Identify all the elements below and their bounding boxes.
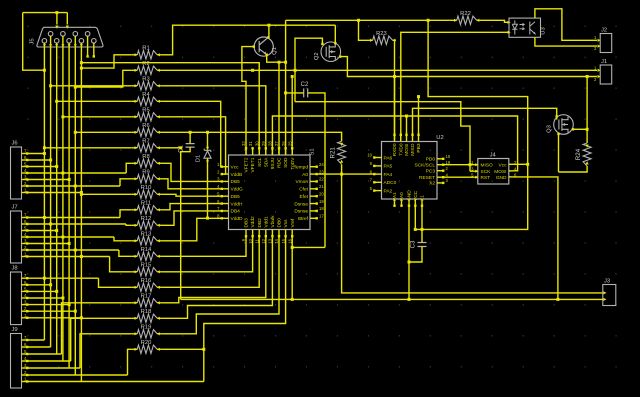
arrow into J2 pin1 <box>598 39 601 42</box>
junction DB9 loop <box>55 11 58 14</box>
connector J9 pin 7 <box>22 335 29 341</box>
junction U1 top pin2 <box>251 69 254 72</box>
wire R2 left lead <box>132 69 134 71</box>
wire R19 right lead <box>160 333 163 335</box>
arrow DB9 pin exit 3 <box>55 44 58 47</box>
wire U1 pin12 to R17 <box>163 237 266 303</box>
svg-text:R9: R9 <box>142 170 149 176</box>
svg-text:18: 18 <box>319 206 324 211</box>
svg-text:U2: U2 <box>436 135 443 141</box>
junction X1/C3 on VCC <box>421 228 424 231</box>
U2 left pin ADC0 <box>370 178 397 187</box>
junction R1 on v7 <box>80 67 83 70</box>
svg-text:R24: R24 <box>575 148 582 160</box>
junction VCC stub <box>414 228 417 231</box>
svg-text:DB3: DB3 <box>244 218 250 228</box>
junction R21 on A0 line <box>340 173 343 176</box>
wire R5 right lead <box>160 116 163 118</box>
svg-text:PA5: PA5 <box>384 164 393 170</box>
wire J7 pin 6 row <box>28 223 126 225</box>
junction emitter on vertical <box>284 61 287 64</box>
wire J4 GND net <box>513 177 558 300</box>
svg-text:24: 24 <box>319 162 324 167</box>
svg-text:Vmon: Vmon <box>295 179 308 185</box>
junction J6 pin 1 on bus <box>80 191 83 194</box>
wire R5 left net <box>63 116 132 118</box>
junction J7 pin 3 on bus <box>68 242 71 245</box>
U2 bottom pin VCC <box>413 190 419 207</box>
pad Q3 drain <box>572 128 574 130</box>
wire R6 left net <box>75 131 131 133</box>
svg-text:PC3: PC3 <box>426 169 436 175</box>
svg-text:RXD0: RXD0 <box>392 143 398 156</box>
wire TXD0 riser <box>400 135 402 142</box>
wire J8 pin 7 row <box>28 277 99 279</box>
wire R18 left net <box>71 318 132 361</box>
junction R4 on v3 <box>55 100 58 103</box>
svg-text:R4: R4 <box>142 92 150 98</box>
wire R23 left <box>359 20 370 40</box>
svg-text:U3: U3 <box>541 27 547 34</box>
svg-text:PA2: PA2 <box>384 188 393 194</box>
wire R9 left net <box>120 179 132 186</box>
wire J8 pin 3 row <box>28 304 69 306</box>
connector J9 pin 5 <box>22 349 29 355</box>
junction pin27 on emitter jog <box>278 61 281 64</box>
svg-text:VFET2: VFET2 <box>244 157 250 172</box>
U1 top pin 29 <box>261 141 269 168</box>
U1 top pin 31 <box>248 141 256 173</box>
resistor R21 <box>330 141 346 164</box>
junction J8 pin 5 on bus <box>55 290 58 293</box>
connector J1 <box>594 59 612 84</box>
svg-text:SCK/SCL: SCK/SCL <box>414 163 435 169</box>
svg-text:J6: J6 <box>12 141 18 147</box>
wire R14 right lead <box>160 255 163 257</box>
wire R20 left net <box>128 349 132 375</box>
junction J8 pin 4 on bus <box>61 297 64 300</box>
U2 right pin PC3 <box>426 166 449 175</box>
wire D1 top <box>207 132 209 149</box>
svg-text:22: 22 <box>319 177 324 182</box>
wire R11 right lead <box>160 209 163 211</box>
wire R9 right lead <box>160 178 163 180</box>
svg-text:20: 20 <box>319 191 324 196</box>
wire J1p2 to R24 vertical <box>586 77 588 144</box>
junction J6 pin 4 on bus <box>61 172 64 175</box>
resistor R8 <box>134 154 160 167</box>
U2 left pin PA5 <box>370 161 393 170</box>
junction pin25 on J1p2 line <box>291 75 294 78</box>
junction R6 on v6 <box>74 131 77 134</box>
resistor R10 <box>134 185 160 198</box>
resistor R9 <box>134 170 160 183</box>
wire Q1 collector <box>268 25 270 37</box>
wire top rail 2 <box>286 19 450 21</box>
svg-text:PA6: PA6 <box>384 155 393 161</box>
wire U1 pin10 to R15 <box>163 237 253 272</box>
connector J7 pin 7 <box>22 213 29 219</box>
svg-text:J2: J2 <box>601 28 607 34</box>
connector J7 pin 2 <box>22 245 29 251</box>
J4 left pin MISO <box>471 160 493 169</box>
wire R4 left net <box>57 100 132 102</box>
wire J7 pin 1 row <box>28 256 110 258</box>
svg-text:30: 30 <box>254 141 259 146</box>
U1 left pin 8 <box>217 213 243 222</box>
wire R22 left lead <box>450 19 454 21</box>
junction C3 on GND <box>408 261 411 264</box>
connector J7 <box>11 205 22 264</box>
arrow into U3 pin1 <box>508 21 511 24</box>
junction J4 GND on gnd line <box>556 298 559 301</box>
capacitor C3 <box>411 240 427 248</box>
wire J6 pin 1 row <box>28 192 81 194</box>
arrow into J4 pin2 <box>475 170 478 173</box>
wire VCC stub <box>414 206 416 229</box>
wire Q3 drain net <box>573 128 587 130</box>
resistor R22 <box>454 11 480 24</box>
arrow into J1 pin2 <box>598 75 601 78</box>
svg-text:PD0: PD0 <box>426 157 436 163</box>
wire J4 Vcc to VCC <box>513 163 528 165</box>
svg-text:R21: R21 <box>330 147 337 159</box>
svg-text:Q1: Q1 <box>272 47 278 55</box>
U2 bottom pin PA0 <box>399 192 405 207</box>
connector J9 pin 1 <box>22 377 29 383</box>
wire J9 pin 1 row <box>28 381 204 383</box>
svg-text:GND: GND <box>496 175 507 181</box>
connector J7 pin 3 <box>22 239 29 245</box>
svg-text:SDA: SDA <box>263 157 269 168</box>
wire C2 right net <box>308 93 325 248</box>
connector J9 pin 3 <box>22 363 29 369</box>
junction J6 pin 6 on bus <box>49 159 52 162</box>
junction J7 pin 6 on bus <box>49 223 52 226</box>
svg-text:J9: J9 <box>12 327 18 333</box>
wire R3 right lead <box>160 85 163 87</box>
svg-text:SCL: SCL <box>257 157 263 167</box>
connector J8 pin 5 <box>22 286 29 292</box>
connector J8 pin 1 <box>22 313 29 319</box>
U2 top pin MOSI <box>404 134 410 156</box>
svg-text:17: 17 <box>319 213 324 218</box>
wire to DB9 pin3 top <box>66 13 68 25</box>
connector J6 pin 6 <box>22 155 29 161</box>
wire R8 to U1 pin3 <box>163 163 222 181</box>
wire J6 pin 4 row <box>28 172 126 174</box>
wire node line y101 <box>295 102 470 172</box>
U2 bottom pin GND <box>407 190 413 207</box>
svg-text:DB0: DB0 <box>277 218 283 228</box>
wire R1 left net <box>81 55 131 68</box>
wire J9 pin 7 row <box>28 339 44 341</box>
wire J7 pin 2 row <box>28 249 119 251</box>
svg-text:10: 10 <box>367 153 372 158</box>
junction R2 on v6 <box>74 86 77 89</box>
junction J6 pin 5 on bus <box>55 165 58 168</box>
resistor R1 <box>134 46 160 59</box>
svg-text:R14: R14 <box>141 247 152 253</box>
wire DB9 top loop <box>23 12 68 14</box>
connector J4 <box>478 153 509 185</box>
wire R4 right lead <box>160 100 163 102</box>
U2 top pin TXD0 <box>398 134 404 156</box>
wire RESET to J4 RST <box>443 176 475 178</box>
svg-text:RST: RST <box>481 175 491 181</box>
U1 right pin 18 <box>294 206 324 215</box>
wire C1 bottom net <box>181 147 190 299</box>
U1 right pin 22 <box>295 177 324 186</box>
wire R4 to U1 pin1 <box>163 101 222 166</box>
wire R11 to U1 pin6 <box>163 204 222 210</box>
junction C1 on R6 line <box>189 131 192 134</box>
wire R14 left net <box>119 250 132 256</box>
wire X1 net <box>421 206 423 229</box>
wire R2 right lead <box>160 69 163 71</box>
junction pin30 on v7 <box>80 61 83 64</box>
svg-text:R7: R7 <box>142 139 149 145</box>
wire R5 left lead <box>132 116 134 118</box>
wire J9 pin 4 row <box>28 360 71 362</box>
junction branch on pin16 <box>291 246 294 249</box>
wire J7 pin 5 row <box>28 230 57 232</box>
svg-text:J5: J5 <box>30 38 36 44</box>
J4 left pin RST <box>471 173 490 182</box>
U1 right pin 23 <box>302 169 324 178</box>
U1 left pin 5 <box>217 191 240 200</box>
junction D1 on R13 net <box>206 217 209 220</box>
U2 top pin RXD0 <box>392 134 398 157</box>
wire MISO net <box>413 108 557 134</box>
wire R6 to R21 line <box>163 132 342 141</box>
svg-text:Vref: Vref <box>290 218 296 227</box>
junction J8 pin 1 on bus <box>80 316 83 319</box>
connector J6 <box>11 141 22 200</box>
wire J9 pin 6 row <box>28 346 51 348</box>
connector J6 pin 3 <box>22 175 29 181</box>
svg-text:VFET1: VFET1 <box>250 157 256 172</box>
svg-text:R18: R18 <box>141 309 152 315</box>
wire MOSI net to J4 <box>272 116 517 171</box>
wire Q2 gate net <box>295 38 322 70</box>
wire R5 to U1 pin2 <box>163 117 226 174</box>
svg-text:PB3: PB3 <box>416 143 422 152</box>
wire R7 right lead <box>160 147 163 149</box>
connector J6 pin 7 <box>22 149 29 155</box>
svg-text:Vcc: Vcc <box>499 162 508 168</box>
U1 left pin 3 <box>217 177 240 186</box>
resistor R2 <box>134 61 160 74</box>
svg-text:R1: R1 <box>142 46 149 52</box>
wire R10 right lead <box>160 193 163 195</box>
wire J8 pin 6 row <box>28 284 51 286</box>
wire DB9 pin8 stub <box>87 36 89 56</box>
junction J9 pin1 on R20 net <box>202 348 205 351</box>
pad DB9 pin8 <box>86 55 88 57</box>
svg-text:R16: R16 <box>141 278 152 284</box>
wire DB9 bus v5 <box>68 43 70 368</box>
wire R12 to U1 pin7 <box>163 211 222 225</box>
resistor R7 <box>134 139 160 152</box>
resistor R3 <box>134 77 160 90</box>
wire RXD0 up <box>394 77 396 135</box>
wire U2 MOSI stub up <box>406 116 408 135</box>
svg-text:PA4: PA4 <box>384 172 393 178</box>
wire R10 left net <box>81 193 131 195</box>
zener diode D1 <box>196 149 212 163</box>
junction J7 pin 1 on bus <box>80 255 83 258</box>
connector J7 pin 4 <box>22 232 29 238</box>
resistor R18 <box>134 309 160 322</box>
U1 top pin 32 <box>241 141 249 173</box>
wire R15 left net <box>110 257 132 272</box>
svg-text:MOSI: MOSI <box>404 144 410 156</box>
svg-text:VddD: VddD <box>231 216 244 222</box>
wire J7 pin 3 row <box>28 243 69 245</box>
capacitor C1 <box>179 144 195 153</box>
svg-text:DB5: DB5 <box>231 194 241 200</box>
arrow into J1 pin1 <box>598 69 601 72</box>
junction J8 pin 7 on bus <box>43 277 46 280</box>
arrow into U3 pin2 <box>508 31 511 34</box>
wire R9 left lead <box>132 178 134 180</box>
junction J8 pin 2 on bus <box>74 310 77 313</box>
svg-text:9SJU: 9SJU <box>270 157 276 169</box>
svg-text:Cfet: Cfet <box>299 187 308 193</box>
capacitor C2 <box>301 82 309 98</box>
U2 right pin SCK/SCL <box>414 160 450 169</box>
junction Q1 collector on rail <box>267 24 270 27</box>
wire U1 pin11 to R16 <box>163 237 259 288</box>
wire J7 pin 4 row <box>28 236 114 238</box>
wire D1 bottom <box>207 158 209 218</box>
connector J3 <box>603 279 616 306</box>
wire R1 right lead <box>160 54 163 56</box>
U1 top pin 28 <box>268 141 276 170</box>
arrow DB9 pin exit 5 <box>68 44 71 47</box>
wire R23 right to U2 RXD0 <box>395 40 396 141</box>
connector J8 <box>11 266 22 325</box>
svg-text:Vbulk: Vbulk <box>270 215 276 228</box>
U2 right pin X2 <box>429 178 448 187</box>
svg-text:31: 31 <box>248 141 253 146</box>
connector J8 pin 3 <box>22 300 29 306</box>
wire R12 left lead <box>132 224 134 226</box>
junction VCC branch <box>427 19 430 22</box>
svg-text:SCK: SCK <box>481 169 492 175</box>
junction on J4 MISO row <box>469 163 472 166</box>
svg-text:J8: J8 <box>12 266 18 272</box>
wire DB9 bus v2 <box>50 36 52 347</box>
connector J7 pin 6 <box>22 219 29 225</box>
wire J9 pin 2 row <box>28 374 128 376</box>
svg-text:R10: R10 <box>141 185 152 191</box>
wire R16 left net <box>99 278 132 287</box>
wire R10 to U1 pin5 <box>163 194 222 196</box>
transistor Q2 <box>314 42 341 62</box>
svg-text:21: 21 <box>319 184 324 189</box>
wire C2 left lead <box>286 92 304 94</box>
svg-text:J4: J4 <box>490 153 497 159</box>
wire J4 SCK from node line <box>470 170 475 172</box>
resistor R20 <box>134 340 160 353</box>
U1 top pin 30 <box>254 141 262 167</box>
svg-text:J3: J3 <box>604 279 610 285</box>
svg-text:15: 15 <box>446 154 451 159</box>
arrow into J2 pin2 <box>598 45 601 48</box>
transistor Q3 <box>547 115 574 135</box>
wire R1 to top rail <box>163 25 335 55</box>
wire R18 right lead <box>160 317 163 319</box>
connector J7 pin 1 <box>22 252 29 258</box>
wire U1 pin13 to R18 <box>163 237 273 319</box>
wire R1 left lead <box>132 54 134 56</box>
svg-text:J7: J7 <box>12 205 18 211</box>
wire R17 left lead <box>132 302 134 304</box>
wire U1 pin27 up <box>278 62 280 155</box>
wire R24 bottom <box>559 166 588 172</box>
pad Q2 source <box>339 55 341 57</box>
wire R11 left net <box>120 210 132 218</box>
wire R7 right net <box>163 147 181 149</box>
arrow DB9 pin exit 2 <box>49 44 52 47</box>
junction J1 pin2 to Q3 <box>586 75 589 78</box>
svg-text:SOD: SOD <box>283 157 289 168</box>
arrow DB9 pin exit 7 <box>80 44 83 47</box>
U1 left pin 1 <box>217 162 239 171</box>
svg-text:R23: R23 <box>376 31 387 37</box>
U2 left pin PA4 <box>370 169 393 178</box>
svg-text:A0: A0 <box>302 172 308 178</box>
svg-text:R15: R15 <box>141 263 152 269</box>
J4 right pin Vcc <box>499 160 518 169</box>
wire C3 top <box>421 229 423 242</box>
svg-text:PA1: PA1 <box>392 192 398 201</box>
svg-text:GND: GND <box>407 190 413 201</box>
wire R12 left net <box>126 224 132 225</box>
svg-text:TXD0: TXD0 <box>398 143 404 156</box>
wire U1 pin15 to R20 <box>163 237 286 350</box>
junction R7 on v1 <box>43 146 46 149</box>
U2 top pin PB3 <box>416 134 422 153</box>
wire J6 pin 7 row <box>28 153 44 155</box>
svg-text:Vss: Vss <box>283 219 289 228</box>
svg-text:C3: C3 <box>411 240 417 248</box>
junction Q3 drain <box>586 128 589 131</box>
junction Q2 gate on J1 line <box>294 69 297 72</box>
wire R3 left net <box>51 85 132 87</box>
wire R20 left lead <box>132 348 134 350</box>
wire J7 pin 7 row <box>28 217 120 219</box>
wire J6 pin 2 row <box>28 185 120 187</box>
U1 top pin 26 <box>281 141 289 168</box>
connector J9 pin 6 <box>22 342 29 348</box>
U2 right pin PD0 <box>426 154 451 163</box>
junction R7 on C1 net <box>179 146 182 149</box>
resistor R4 <box>134 92 160 105</box>
U2 left pin PA6 <box>367 153 392 162</box>
resistor R13 <box>134 232 160 245</box>
wire DB9 bus v3 <box>56 43 58 354</box>
wire Q2 source net <box>340 57 597 77</box>
junction D1 on R6 line <box>206 131 209 134</box>
U1 bottom pin 14 <box>274 218 282 244</box>
U2 top pin MISO <box>410 134 416 156</box>
wire J8 pin 4 row <box>28 297 63 299</box>
pad Q3 source <box>557 133 559 135</box>
svg-text:29: 29 <box>261 141 266 146</box>
